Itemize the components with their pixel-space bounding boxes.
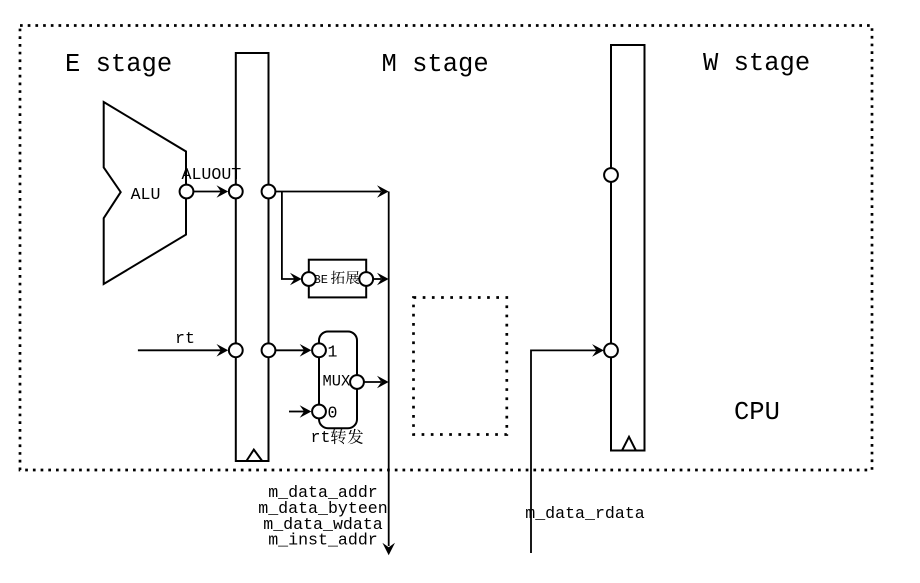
- svg-text:rt: rt: [175, 329, 195, 348]
- BE extend output port: [359, 272, 373, 286]
- wire: E/M register rt output to MUX input 1: [276, 349, 305, 351]
- wire: MUX output to memory bus: [364, 381, 381, 383]
- BE extend block: [309, 260, 366, 298]
- svg-text:m_inst_addr: m_inst_addr: [268, 531, 378, 550]
- M/W register upper port: [604, 168, 618, 182]
- wire: ALU output to E/M register (ALUOUT): [194, 191, 222, 193]
- wire: m_data_rdata up and into M/W register: [531, 350, 597, 553]
- svg-text:MUX: MUX: [323, 373, 351, 391]
- E/M register rt output port: [262, 343, 276, 357]
- label: BE extend: [314, 271, 360, 287]
- CPU boundary (dotted outline): [20, 26, 872, 471]
- BE extend input port: [302, 272, 316, 286]
- E/M register rt input port: [229, 343, 243, 357]
- svg-text:M stage: M stage: [382, 50, 489, 79]
- E/M register clock triangle: [246, 450, 262, 461]
- svg-text:ALUOUT: ALUOUT: [182, 165, 242, 184]
- M/W register m_data_rdata input port: [604, 344, 618, 358]
- svg-text:rt: rt: [311, 428, 331, 447]
- E/M register ALUOUT input port: [229, 185, 243, 199]
- svg-text:m_data_rdata: m_data_rdata: [525, 504, 645, 523]
- M/W pipeline register: [611, 45, 645, 451]
- wire: BE extend output to memory bus: [373, 278, 381, 280]
- MUX input 0 port: [312, 405, 326, 419]
- label: rt forward (rt zhuanfa): [311, 428, 364, 447]
- MUX output port: [350, 375, 364, 389]
- wire: memory bus going down to m_data_addr pins: [388, 192, 390, 547]
- MUX input 1 port: [312, 343, 326, 357]
- ALU output port: [180, 185, 194, 199]
- wire: E/M register ALUOUT output to memory address bus: [276, 191, 381, 193]
- svg-text:1: 1: [328, 343, 338, 362]
- svg-text:0: 0: [328, 404, 338, 423]
- wire: rt input into E/M register: [138, 349, 221, 351]
- wire: MUX input 0 stub: [289, 411, 305, 413]
- rt forward MUX: [319, 332, 357, 429]
- E/M pipeline register: [236, 53, 269, 461]
- svg-text:E stage: E stage: [65, 50, 172, 79]
- wire: branch from ALUOUT bus down into BE extend: [282, 192, 295, 280]
- svg-text:W stage: W stage: [703, 49, 810, 78]
- data memory placeholder (dotted box): [414, 298, 507, 435]
- svg-text:ALU: ALU: [131, 185, 161, 204]
- svg-text:CPU: CPU: [734, 398, 780, 427]
- E/M register ALUOUT output port: [262, 185, 276, 199]
- M/W register clock triangle: [622, 437, 636, 451]
- ALU (block): [104, 102, 186, 284]
